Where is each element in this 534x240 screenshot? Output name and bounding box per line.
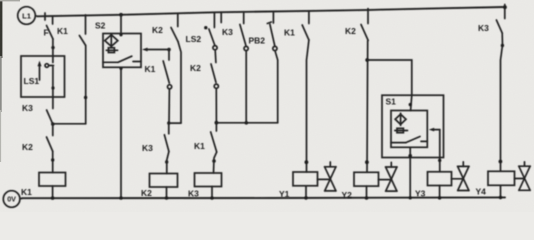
node dot above coil Y4 [499,160,503,164]
svg-text:S2: S2 [95,21,106,31]
wire coil Y2 to rail [366,186,368,198]
wire junction C bus [216,122,277,124]
wire coil K3 to rail [211,187,213,199]
svg-text:K3: K3 [22,103,33,113]
wire coil K2 to rail [166,187,168,198]
svg-text:LS1: LS1 [24,76,40,86]
svg-text:Y4: Y4 [476,187,487,197]
node rail stub near LS2 [220,12,222,22]
sensor S2 diamond symbol [105,34,118,48]
svg-text:K2: K2 [141,188,152,198]
wire coil K1 to rail [52,186,54,198]
node rail junction dot [499,196,503,200]
wire K2 to coil K1 [52,152,54,173]
node rail junction dot [119,196,123,200]
wire K1 contact to junction B [168,89,170,124]
contact F [47,16,54,39]
sensor S2 box [103,34,141,68]
contact LS2 [209,12,217,49]
node dot above coil K3 [212,159,216,163]
node rail junction dot [409,196,412,199]
node dot above coil K1 [51,158,54,161]
node junction C dot [215,121,219,125]
contact K2 seal-in [171,14,178,42]
node junction dot S1 feed [365,58,369,62]
svg-text:0V: 0V [7,195,16,204]
contact K2 [211,64,218,88]
contact K3 [240,13,248,50]
node junction A dot [51,122,55,126]
node dot on K1 drop [84,96,87,99]
wire PB2 contact to bus [275,51,278,123]
node dot inside LS1 [51,86,54,89]
svg-text:K2: K2 [345,26,356,36]
contact K1 [163,50,172,89]
wire coil Y3 to rail [439,186,441,199]
svg-text:K3: K3 [222,27,233,37]
svg-text:K1: K1 [21,187,32,197]
solenoid valve symbol Y3 [452,162,470,191]
svg-text:K3: K3 [478,23,489,33]
limit switch LS1 contact circle [45,64,49,68]
contact PB2 [267,13,277,51]
sensor S1 magnet symbol [395,128,408,132]
node rail junction dot [51,196,55,200]
node rail junction dot [365,196,369,200]
node rail junction dot [304,196,308,200]
sensor S2 output contact [103,56,141,62]
node dot below K3 contact [501,44,504,47]
wire F to LS1 [52,39,54,63]
svg-text:K1: K1 [57,26,68,36]
wire LS1 to K3 contact [52,67,54,109]
node dot at S1 inner top [409,103,412,106]
wire bottom return rail 0V [22,196,505,199]
wire junction B link [169,122,181,124]
sensor S1 output contact [391,137,427,143]
coil K1 [39,173,66,187]
contact K3 [47,110,53,124]
sensor S1 diamond symbol [395,113,406,125]
wire K2 contact to junction C [215,88,217,122]
node dot below F [51,46,54,49]
node dot above coil Y2 [365,160,369,164]
coil K3 [195,173,222,187]
svg-text:K2: K2 [152,25,163,35]
wire S2 box to 0V rail [120,67,122,198]
wire coil Y1 to rail [305,186,307,198]
contact K3 [164,123,169,151]
wire K3 contact to coil Y4 [501,33,503,171]
scan edge artifact left [0,0,2,58]
svg-text:F: F [44,28,49,38]
node rail junction dot [210,196,214,200]
svg-text:Y1: Y1 [279,189,290,199]
contact K2 [47,124,53,152]
wire coil Y4 to rail [500,185,502,197]
coil Y3 [428,172,452,186]
svg-text:K3: K3 [188,189,199,199]
node 0V terminal circle [3,191,22,208]
contact K2 (valve Y2 rung) [361,9,368,41]
wire junction A link [53,123,86,125]
svg-text:L1: L1 [22,12,32,21]
wire K1 contact to coil K3 [214,152,217,173]
solenoid valve symbol Y2 [379,162,398,191]
svg-text:LS2: LS2 [186,34,202,44]
contact K1 (valve Y1 rung) [302,11,309,40]
node dot at S1 box bottom [408,154,412,158]
wire K1 contact to coil Y1 [307,40,309,172]
contact K1 seal-in [79,15,85,46]
wire LS2 to K2 contact [214,50,217,63]
node rail tick [44,13,46,20]
wire top supply rail L1 [38,7,506,16]
node dot left of LS2 contact [204,26,207,29]
contact K3 (valve Y4 rung) [496,5,504,34]
svg-text:K1: K1 [194,141,205,151]
svg-text:K2: K2 [22,142,33,152]
svg-text:K3: K3 [142,143,153,153]
node rail junction dot [438,196,442,200]
sensor S1 outer box [382,95,444,157]
wire K1 seal-in drop [85,46,87,124]
wire rail to S2 box [120,15,122,34]
wire K3 contact to bus [245,51,247,123]
node dot at S2 box top [119,33,122,36]
contact K1 [211,123,217,152]
solenoid valve symbol Y4 [515,162,531,191]
wire K2 to sensor S1 [367,60,412,111]
paper texture [0,0,1,1]
node L1 terminal circle [18,7,38,25]
node dot on Y3 feed [438,159,441,162]
wire K2 seal-in drop [178,42,181,123]
svg-text:K1: K1 [284,28,295,38]
wire S2 output with actuation arrow [142,48,169,52]
limit switch LS1 contact tick [49,65,54,67]
svg-text:Y3: Y3 [415,189,426,199]
node junction dot S2 output [167,48,171,52]
node rail end dot [503,5,507,9]
coil Y2 [354,172,379,186]
svg-text:PB2: PB2 [249,36,266,46]
solenoid valve symbol Y1 [318,162,337,191]
coil Y4 [488,171,515,185]
sensor S1 inner box [391,111,427,148]
coil Y1 [293,172,318,186]
node dot K3 drop on bus [245,121,249,125]
node dot at S2 box bottom [119,67,122,70]
svg-text:K1: K1 [145,64,156,74]
node junction B dot [167,121,170,124]
node rail junction dot [165,196,169,200]
svg-text:Y2: Y2 [342,190,353,200]
sensor S2 magnet symbol [106,48,117,53]
node rail junction dot S2 [119,13,123,17]
wire K2 contact to coil Y2 [366,41,369,173]
svg-text:K2: K2 [190,63,201,73]
limit switch LS1 actuator arrow [38,61,42,80]
wire S1 output with actuation arrow [429,128,440,172]
node dot above coil Y1 [305,160,309,164]
coil K2 [150,174,178,188]
svg-text:S1: S1 [386,97,397,107]
wire K3 contact to coil K2 [167,152,169,174]
node dot above coil K2 [165,160,168,163]
limit switch LS1 box [21,56,65,97]
wire S1 box to 0V rail [409,147,411,198]
